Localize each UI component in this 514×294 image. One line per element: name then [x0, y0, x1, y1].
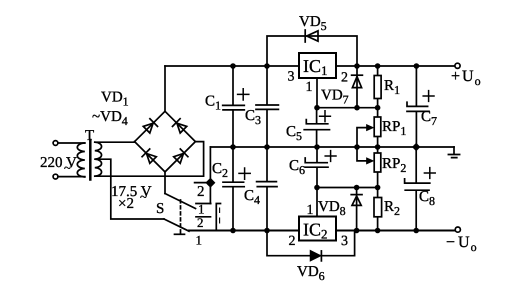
junction dot VD8 bottom [354, 228, 360, 234]
potentiometer RP1 [377, 108, 379, 147]
zero volt mid rail [210, 146, 454, 148]
transformer T secondary winding [95, 142, 102, 176]
svg-text:220 V: 220 V [40, 155, 77, 171]
junction diamond C8 mid [412, 143, 420, 151]
capacitor C6 [305, 147, 328, 188]
svg-text:1: 1 [307, 203, 314, 218]
diode VD2 bridge top-right [177, 123, 187, 133]
junction dot C1 top [230, 63, 236, 69]
diode VD6 [311, 251, 320, 260]
capacitor C7 plus [423, 91, 434, 102]
junction dot R2 top [375, 185, 381, 191]
node 2 junction diamond [207, 179, 215, 187]
IC1 pin1 wire [316, 78, 318, 108]
svg-text:S: S [156, 201, 164, 217]
wire primary top [58, 142, 85, 144]
dashes right of contacts [219, 208, 221, 223]
svg-text:2: 2 [341, 71, 348, 86]
junction dot C3 top [264, 63, 270, 69]
svg-text:2: 2 [197, 184, 205, 200]
junction dot C6 bottom node [314, 185, 320, 191]
diode VD4 bridge bottom-right [174, 154, 184, 164]
switch upper contact 1 bar [196, 203, 211, 205]
negative rail bottom [189, 229, 455, 231]
potentiometer RP2 [377, 147, 379, 188]
capacitor C8 plus [424, 168, 435, 179]
junction dot C4 bottom [264, 228, 270, 234]
svg-text:3: 3 [341, 234, 348, 249]
wire secondary center tap [95, 159, 164, 219]
switch S lower arm [164, 219, 189, 231]
diode VD5 loop wire [267, 36, 357, 66]
diode VD1 bridge top-left [143, 123, 153, 133]
svg-text:~: ~ [64, 160, 71, 175]
svg-text:1: 1 [196, 233, 203, 248]
wire adjust node horizontal [317, 107, 378, 109]
capacitor C5 [304, 108, 329, 147]
terminal -Uo [455, 227, 460, 232]
diode VD6 loop wire [267, 231, 355, 256]
junction dot R2 bottom [375, 228, 381, 234]
junction dot VD7 bottom [354, 105, 360, 111]
wire stub at node 2 [195, 182, 211, 184]
capacitor C2 plus [239, 168, 250, 179]
junction dot RP mid [375, 144, 381, 150]
capacitor C3 [256, 66, 278, 147]
wire bridge top vertex to positive rail [164, 66, 166, 111]
junction dot wipers mid [354, 144, 360, 150]
svg-text:1: 1 [306, 80, 313, 95]
resistor R2 [377, 188, 379, 231]
ground symbol [448, 147, 459, 158]
svg-text:~: ~ [140, 189, 147, 204]
diode VD3 bridge bottom-left [147, 154, 157, 164]
junction dot VD8 top [354, 185, 360, 191]
terminal +Uo [455, 63, 460, 68]
terminal input top [53, 141, 58, 146]
transformer T primary winding [77, 143, 85, 177]
junction dot C5C6 mid [314, 144, 320, 150]
svg-text:2: 2 [197, 215, 204, 230]
switch S upper arm [165, 194, 196, 209]
IC1 box [299, 53, 336, 78]
capacitor C2 [223, 147, 244, 231]
junction dot C3C4 mid [264, 144, 270, 150]
junction dot VD7 top [354, 63, 360, 69]
transformer core [89, 140, 92, 180]
RP1 wiper arrow [357, 128, 369, 147]
switch upper contact 2 bar [196, 216, 211, 218]
IC2 pin1 wire [316, 188, 318, 217]
diode VD7 [356, 66, 358, 108]
diode VD8 [356, 188, 358, 231]
IC2 box [299, 217, 336, 241]
RP2 wiper arrow [357, 147, 369, 161]
wire node 2 vertical to contact 1 [209, 147, 211, 204]
resistor R1 [377, 66, 379, 108]
svg-text:3: 3 [288, 70, 295, 85]
wire primary bottom [58, 176, 85, 178]
terminal input bottom [53, 174, 58, 179]
capacitor C6 plus [325, 151, 336, 162]
positive rail top [165, 65, 455, 67]
svg-text:×2: ×2 [118, 196, 134, 212]
svg-text:2: 2 [289, 234, 296, 249]
junction dot C8 bottom [413, 228, 419, 234]
junction dot pin1 IC1 [314, 105, 320, 111]
bridge diamond wires [135, 111, 196, 172]
wire secondary top to bridge left vertex [95, 141, 135, 144]
wire contact to negative rail [216, 204, 220, 231]
switch mechanical link dashed [180, 200, 182, 234]
junction dot C7 top [414, 63, 420, 69]
capacitor C7 [407, 66, 429, 147]
junction dot C1C2 mid [230, 144, 236, 150]
svg-text:T: T [85, 128, 94, 144]
junction dot R1 top [375, 63, 381, 69]
capacitor C8 [405, 147, 430, 231]
capacitor C1 plus [238, 89, 249, 100]
capacitor C5 plus [320, 111, 331, 122]
wire adjust node 2 horizontal [317, 187, 378, 189]
switch link end bar [175, 233, 185, 235]
capacitor C1 wire [223, 66, 245, 147]
junction dot R1 bottom [375, 105, 381, 111]
diode VD5 [307, 31, 318, 41]
capacitor C4 [257, 147, 277, 231]
wire secondary bottom [95, 142, 204, 177]
junction dot C2 bottom [230, 228, 236, 234]
wire bridge bottom vertex to switch pole [164, 172, 166, 194]
